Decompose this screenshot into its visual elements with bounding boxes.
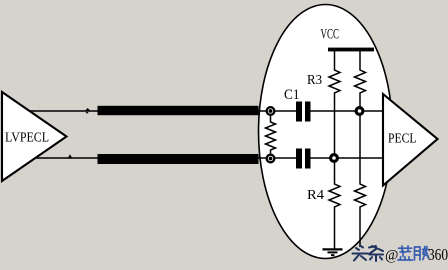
svg-text:LVPECL: LVPECL (5, 130, 49, 145)
ellipse (termination network boundary) (259, 5, 393, 259)
ground (323, 249, 343, 255)
wire VCC rail to pull-up resistor (359, 51, 361, 69)
char 头 (353, 246, 368, 261)
junction dot bottom line (329, 153, 339, 163)
watermark 头条@蓝豚360 (353, 245, 448, 264)
wire bottom line (34, 157, 385, 159)
wire top line node down (crosses bottom line, no junction) (359, 94, 361, 183)
char 蓝 (398, 246, 413, 260)
svg-text:VCC: VCC (321, 27, 340, 43)
resistor R3 (329, 69, 340, 94)
capacitor bottom (plates) (296, 149, 311, 169)
wire R3 to node on bottom line (crosses top line, no junction) (334, 94, 336, 154)
receiver triangle U2 PECL (383, 94, 438, 186)
terminal node bottom (266, 154, 276, 164)
VCC rail (328, 48, 374, 52)
svg-text:360: 360 (428, 245, 448, 264)
resistor pull-down (to ground) (355, 183, 366, 208)
junction dot top line (355, 106, 365, 116)
transmission line bar bottom (98, 154, 259, 164)
arrow mark bottom (68, 154, 73, 158)
transmission line bar top (98, 106, 259, 115)
resistor pull-up (VCC to top line) (355, 69, 366, 94)
driver triangle U1 LVPECL (2, 92, 67, 181)
wire pull-down resistor to ground (359, 208, 361, 247)
svg-text:C1: C1 (284, 87, 300, 103)
svg-text:PECL: PECL (388, 132, 417, 147)
svg-text:@: @ (385, 248, 398, 264)
terminal node top (266, 106, 276, 116)
resistor R4 (329, 183, 340, 208)
svg-text:R3: R3 (307, 73, 322, 88)
svg-text:R4: R4 (307, 188, 324, 203)
wire top line (28, 110, 385, 112)
arrow mark top (85, 108, 91, 113)
capacitor C1 top (plates) (296, 102, 311, 122)
wire R4 to ground (334, 208, 336, 249)
resistor differential termination (between terminals) (266, 116, 276, 155)
char 豚 (415, 247, 429, 261)
char 条 (369, 246, 383, 261)
wire VCC rail to R3 (334, 51, 336, 69)
wire bottom line node to R4 (334, 163, 336, 184)
